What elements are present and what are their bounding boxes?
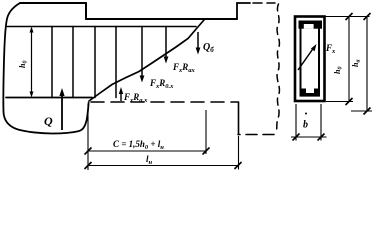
h0 dimension line [348,17,350,102]
svg-text:lн: lн [146,154,153,166]
b tick right [318,134,325,141]
stirrup 5 force arrow [141,27,143,80]
right step up [236,3,238,19]
wavy dashed right break edge [276,4,279,133]
stirrup 4 [115,27,117,98]
left height dimension line [30,27,34,98]
ln tick right [235,162,242,169]
svg-text:C = 1,5h0 + lн: C = 1,5h0 + lн [113,139,164,151]
svg-text:ha: ha [351,60,362,67]
b dimension line [291,136,327,138]
cross-section stirrup top band [299,21,323,97]
dashed column bottom edge [238,134,274,136]
stirrup 1 [51,27,53,98]
stirrup 3 [94,27,96,98]
notch top edge [86,18,237,20]
svg-text:Fx: Fx [325,43,336,55]
cross-section stirrup side legs [300,29,302,94]
inclined crack [89,20,204,101]
top right edge solid piece [237,2,250,4]
corner vertical at column [238,102,240,135]
svg-text:h0: h0 [333,67,344,74]
dot above b [305,113,307,115]
b extension lines [295,104,297,141]
svg-text:b: b [303,120,308,131]
svg-text:FxRax: FxRax [172,62,196,74]
beam torn left edge [3,3,88,134]
support reaction arrow Q [59,88,64,130]
section top extension line [325,16,370,18]
c dimension right extension [205,110,207,154]
Fx pointer arrow in section [298,44,317,70]
h bottom extension [351,110,372,112]
h0 tick bottom [346,98,353,105]
hidden bottom line dashed [91,101,238,103]
Qb load arrow [196,32,201,55]
h tick top [364,13,371,20]
c tick right [203,148,210,155]
svg-text:Qб: Qб [203,42,214,54]
notch step down [85,3,87,19]
small up force arrow [119,87,123,101]
c dimension left extension [87,104,89,170]
top right edge dashed [253,2,275,4]
svg-text:Q: Q [44,114,53,128]
rebar bottom corner dots [301,89,307,94]
svg-text:FxR0.x: FxR0.x [149,78,174,90]
stirrup 6 force arrow [165,27,167,61]
section bottom extension line [326,101,353,103]
b tick left [293,134,300,141]
svg-text:h0: h0 [18,61,29,68]
c dimension line [88,150,206,152]
ln tick left [85,162,92,169]
h dimension line [366,17,368,112]
c tick left [85,148,92,155]
cross-section stirrup bottom band [300,93,321,97]
cross-section outer rect [295,17,325,102]
ln dimension line [88,165,238,167]
h tick bottom [364,108,371,115]
inner top reinforcement line [7,26,196,28]
console bottom solid line [6,97,92,99]
stirrup 2 [72,27,74,98]
ln right extension [238,136,240,170]
h0 tick top [346,13,353,20]
beam top edge tall part [20,2,86,4]
arrowhead stirrup5 [140,76,145,83]
arrowhead stirrup6 [164,57,169,64]
